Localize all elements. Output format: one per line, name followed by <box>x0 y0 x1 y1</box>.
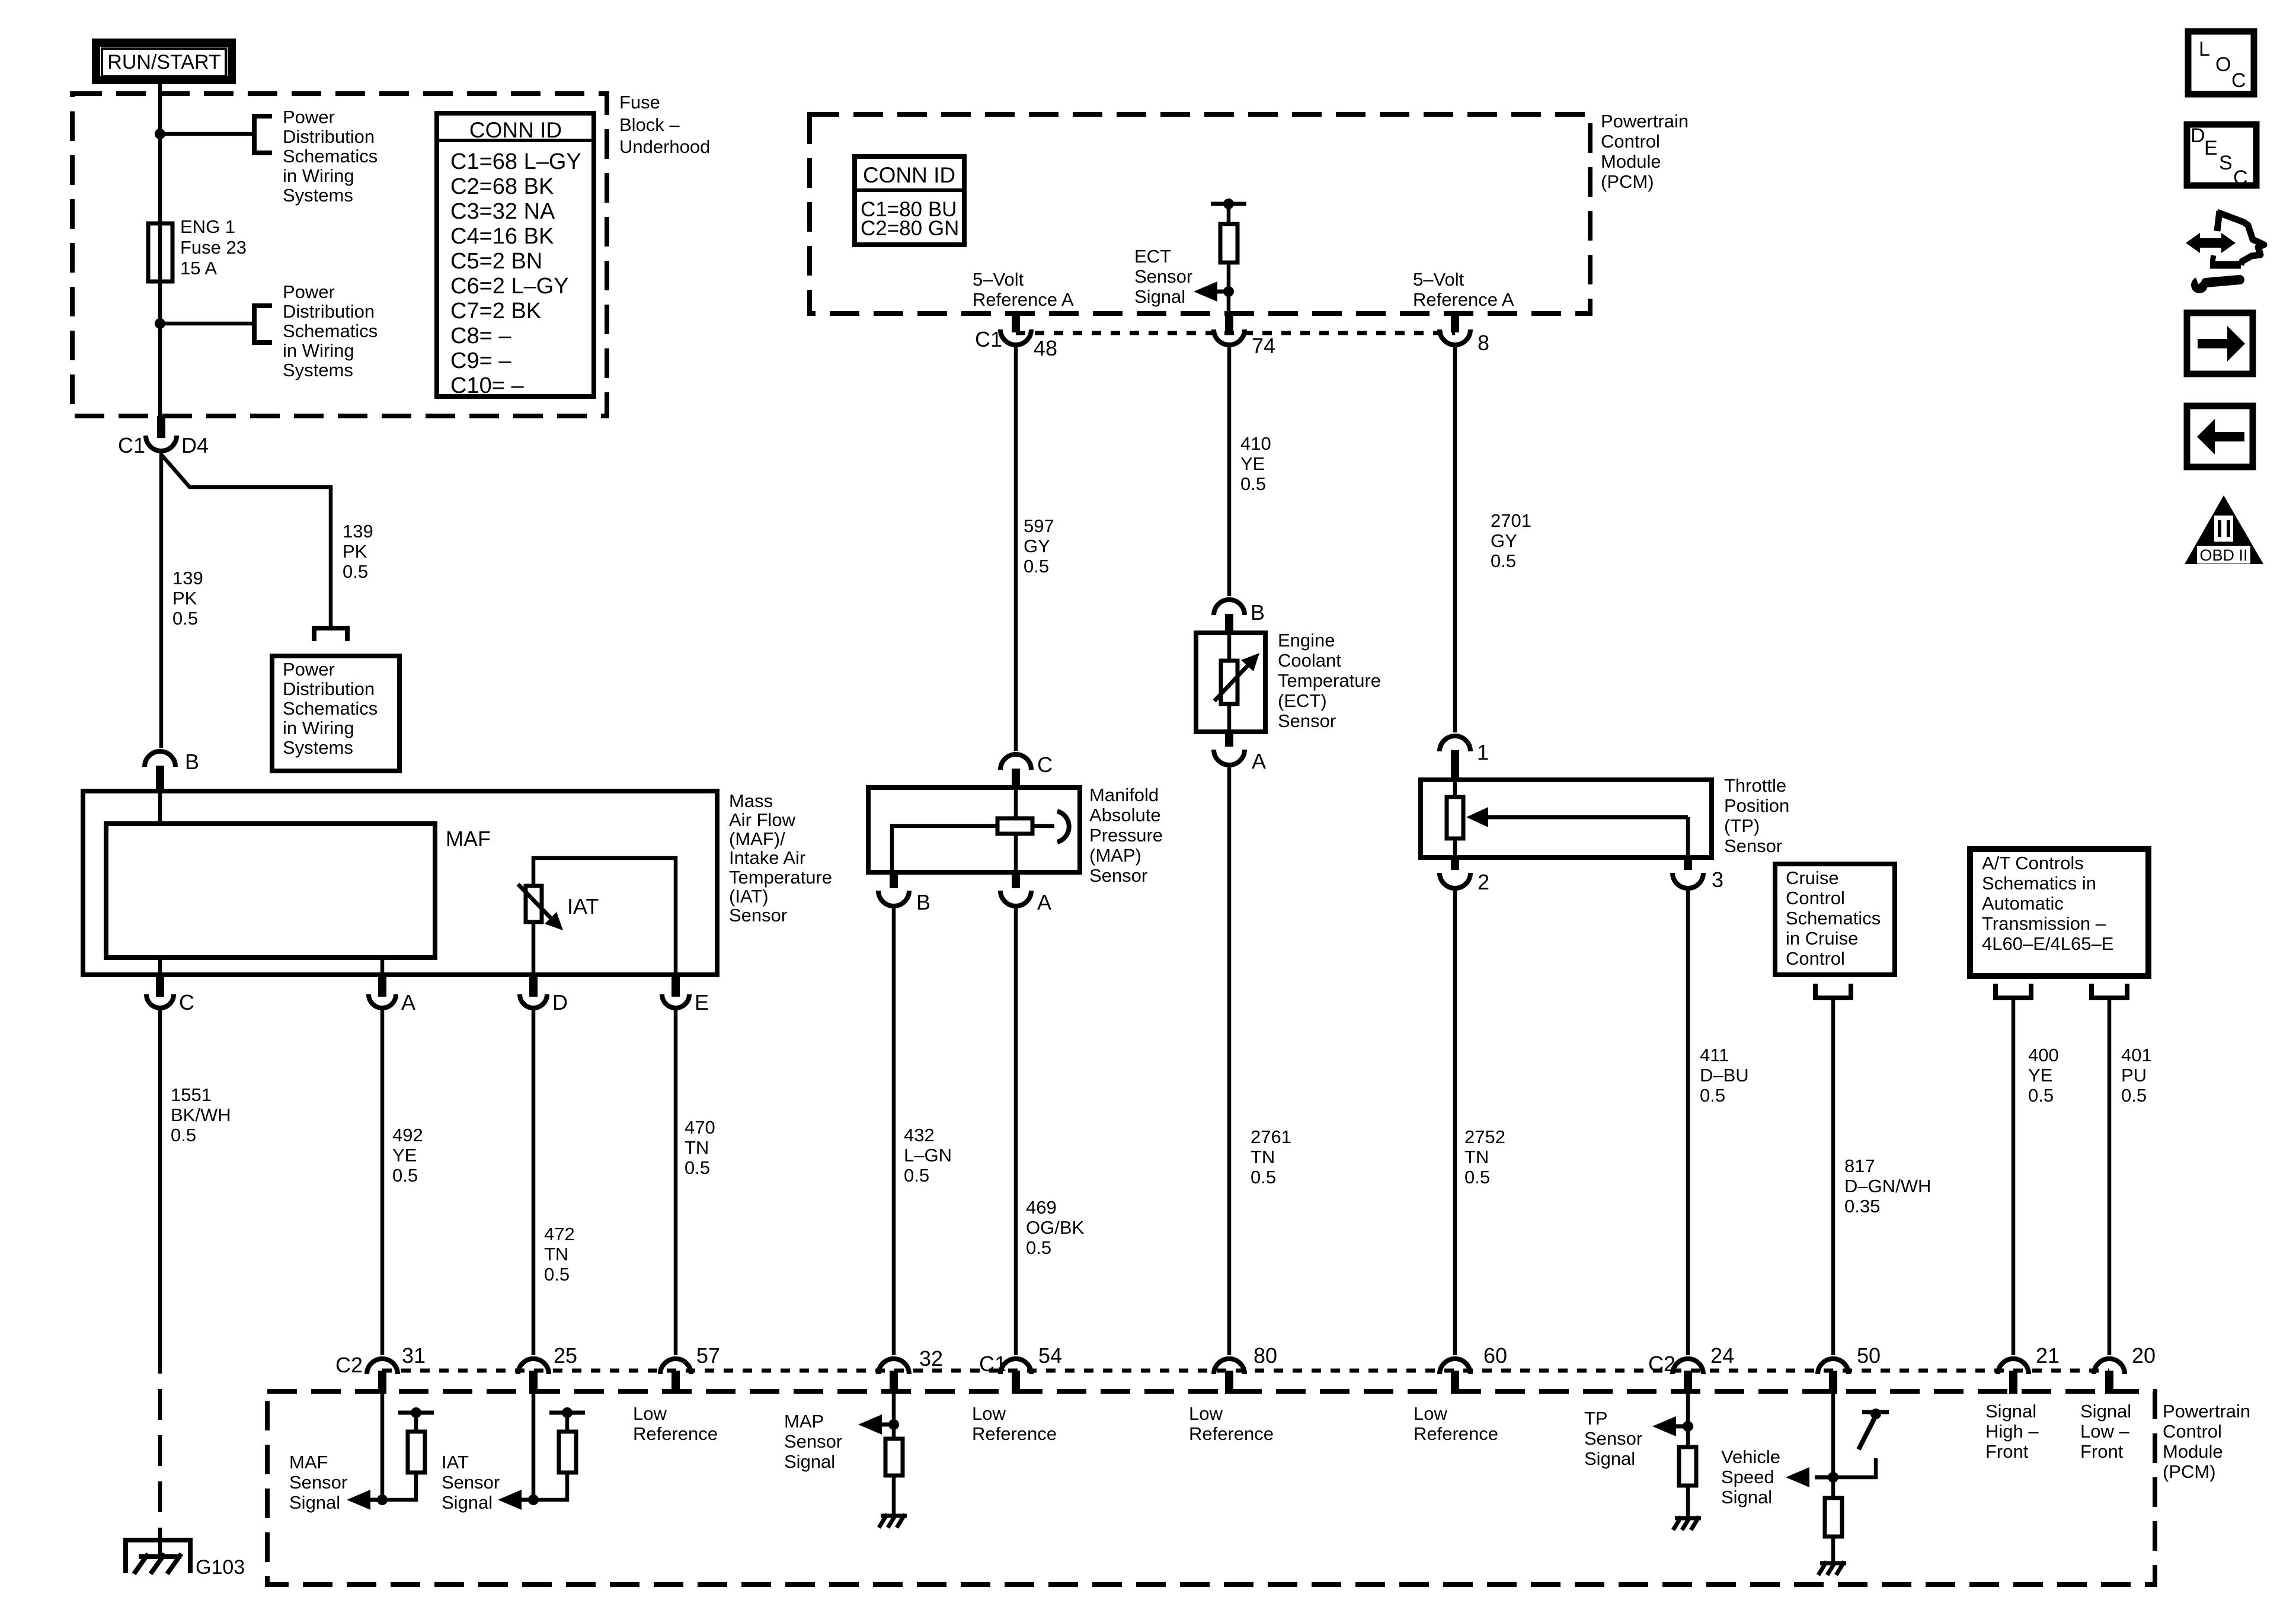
resistor TP potentiometer <box>1447 797 1463 838</box>
wire MAP internal right <box>1032 824 1054 828</box>
svg-text:A: A <box>401 990 415 1014</box>
ground G103 cradle <box>126 1540 190 1573</box>
wire 432 L-GN pin B to PCM <box>892 908 896 1355</box>
svg-text:2701: 2701 <box>1491 510 1531 531</box>
wire 817 D-GN/WH to PCM <box>1831 998 1835 1355</box>
svg-text:G103: G103 <box>196 1556 245 1579</box>
pin A terminal stub <box>378 977 386 997</box>
svg-text:C10= –: C10= – <box>450 373 524 398</box>
icon arrow left box <box>2187 406 2253 467</box>
svg-text:Sensor: Sensor <box>1134 266 1192 287</box>
label TP Sensor Signal <box>1584 1408 1642 1469</box>
MAP pin C cup <box>1000 754 1031 770</box>
svg-text:Schematics: Schematics <box>1786 908 1881 929</box>
arrow vehicle speed signal <box>1815 1475 1833 1480</box>
svg-text:Powertrain: Powertrain <box>2163 1401 2250 1422</box>
label Cruise Control Schematics in Cruise Control <box>1786 868 1881 969</box>
svg-text:MAF: MAF <box>289 1452 328 1473</box>
bracket upper power distribution reference <box>254 116 272 153</box>
connector 8 terminal stub <box>1451 312 1459 332</box>
connector 20 cup <box>2094 1359 2125 1374</box>
svg-text:Manifold: Manifold <box>1089 785 1159 805</box>
svg-text:492: 492 <box>392 1125 423 1145</box>
svg-text:0.5: 0.5 <box>1026 1237 1051 1258</box>
svg-text:Temperature: Temperature <box>729 867 832 888</box>
wire 401 PU to PCM <box>2108 998 2112 1355</box>
svg-text:TN: TN <box>1464 1147 1489 1167</box>
svg-text:Signal: Signal <box>1721 1487 1772 1507</box>
svg-text:Systems: Systems <box>283 185 353 206</box>
svg-text:32: 32 <box>919 1346 943 1371</box>
label 2761 TN 0.5 <box>1251 1126 1291 1188</box>
wire 410 YE from 74 to ECT <box>1227 347 1232 596</box>
svg-text:TN: TN <box>544 1244 568 1265</box>
wire 597 GY from 48 to MAP <box>1014 347 1018 751</box>
svg-text:(ECT): (ECT) <box>1278 690 1327 711</box>
resistor ECT pullup <box>1220 224 1237 263</box>
svg-text:C: C <box>1037 753 1053 777</box>
label Throttle Position (TP) Sensor <box>1724 775 1789 856</box>
svg-text:Reference: Reference <box>972 1423 1057 1444</box>
svg-text:Low: Low <box>1189 1403 1223 1424</box>
svg-text:Schematics: Schematics <box>283 698 378 719</box>
svg-text:80: 80 <box>1253 1343 1277 1368</box>
pin C cup <box>146 994 174 1008</box>
wire TP wiper down <box>1686 817 1690 857</box>
connector 60 cup <box>1440 1359 1470 1374</box>
svg-text:C5=2 BN: C5=2 BN <box>450 249 542 274</box>
svg-text:Signal: Signal <box>1134 286 1185 307</box>
svg-text:Temperature: Temperature <box>1278 670 1381 691</box>
svg-text:E: E <box>2204 137 2218 159</box>
svg-text:C6=2 L–GY: C6=2 L–GY <box>450 274 569 299</box>
svg-text:B: B <box>1251 600 1265 625</box>
node IAT signal junction <box>528 1494 539 1505</box>
junction node lower <box>155 318 165 329</box>
svg-text:YE: YE <box>392 1145 417 1166</box>
svg-text:Intake Air: Intake Air <box>729 847 805 868</box>
label 470 TN 0.5 <box>685 1117 715 1178</box>
svg-text:24: 24 <box>1710 1343 1734 1368</box>
svg-text:472: 472 <box>544 1224 575 1244</box>
svg-text:PK: PK <box>343 541 367 562</box>
dotted harness line bottom connector row <box>382 1369 2109 1373</box>
svg-text:15 A: 15 A <box>180 258 217 279</box>
node MAF signal junction <box>377 1494 388 1505</box>
svg-text:MAF: MAF <box>446 827 491 851</box>
node VSS switch pivot <box>1870 1409 1881 1419</box>
svg-text:Underhood: Underhood <box>619 136 710 157</box>
ground TP internal <box>1673 1516 1701 1530</box>
wire TP internal upper <box>1453 780 1457 797</box>
wire IAT bottom <box>532 922 536 978</box>
label 817 D-GN/WH 0.35 <box>1844 1156 1931 1217</box>
MAF pullup supply tick <box>398 1411 434 1415</box>
svg-text:GY: GY <box>1491 530 1517 551</box>
svg-text:D–BU: D–BU <box>1700 1065 1749 1086</box>
svg-text:139: 139 <box>172 568 203 588</box>
connector 20 terminal stub <box>2105 1371 2113 1394</box>
svg-text:Systems: Systems <box>283 360 353 380</box>
connector 32 cup <box>878 1359 909 1374</box>
label 472 TN 0.5 <box>544 1224 575 1285</box>
label ECT Sensor Signal <box>1134 246 1192 307</box>
label 5-Volt Reference A (right) <box>1413 269 1514 310</box>
dotted harness line top connector row <box>1016 331 1455 335</box>
svg-text:60: 60 <box>1483 1343 1507 1368</box>
wire 2752 TN pin 2 to PCM <box>1453 891 1457 1355</box>
svg-text:B: B <box>916 890 930 914</box>
svg-text:Module: Module <box>1601 151 1661 172</box>
label Fuse Block - Underhood <box>619 92 710 157</box>
connector 31 cup <box>367 1359 398 1374</box>
MAP pin B cup <box>878 891 909 906</box>
ECT pin A terminal stub <box>1225 732 1233 747</box>
svg-text:Powertrain: Powertrain <box>1601 111 1689 132</box>
bracket below cruise box <box>1815 984 1851 998</box>
label 469 OG/BK 0.5 <box>1026 1197 1085 1258</box>
svg-text:0.5: 0.5 <box>392 1165 418 1186</box>
svg-text:Sensor: Sensor <box>1724 836 1782 856</box>
svg-text:Reference: Reference <box>633 1423 718 1444</box>
icon OBD II triangle <box>2185 495 2263 564</box>
TP pin 3 cup <box>1673 873 1703 888</box>
svg-text:0.5: 0.5 <box>343 561 368 582</box>
svg-text:Air Flow: Air Flow <box>729 809 796 830</box>
svg-text:(IAT): (IAT) <box>729 886 769 907</box>
svg-text:A: A <box>1252 749 1266 773</box>
ECT pin B cup <box>1214 600 1245 615</box>
svg-text:817: 817 <box>1844 1156 1875 1176</box>
connector 24 terminal stub <box>1684 1371 1692 1394</box>
node VSS signal junction <box>1828 1472 1838 1483</box>
TP pin 3 terminal stub <box>1684 857 1692 870</box>
label 410 YE 0.5 <box>1240 433 1271 494</box>
svg-text:0.5: 0.5 <box>1700 1085 1725 1106</box>
TP pin 1 terminal stub <box>1451 750 1459 780</box>
svg-text:E: E <box>695 990 709 1014</box>
svg-text:A/T Controls: A/T Controls <box>1982 853 2084 873</box>
MAF inner box <box>106 824 435 958</box>
svg-text:OG/BK: OG/BK <box>1026 1217 1085 1238</box>
box A/T Controls Schematics <box>1970 849 2148 976</box>
svg-text:0.5: 0.5 <box>1024 556 1049 577</box>
wire TP internal lower <box>1453 838 1457 857</box>
svg-text:in Cruise: in Cruise <box>1786 928 1858 949</box>
box Cruise Control Schematics in Cruise Control <box>1775 864 1895 975</box>
resistor MAP load <box>885 1439 903 1475</box>
svg-text:Module: Module <box>2163 1441 2223 1462</box>
ground VSS internal <box>1818 1561 1846 1575</box>
wire pin C inside box <box>158 958 162 978</box>
svg-text:(PCM): (PCM) <box>1601 171 1654 192</box>
connector 80 terminal stub <box>1225 1371 1233 1394</box>
junction node upper <box>155 129 165 139</box>
svg-text:Control: Control <box>1601 131 1660 152</box>
TP pin 1 cup <box>1440 736 1470 751</box>
PCM top dashed box <box>810 114 1590 313</box>
TP wiper arrow <box>1487 815 1688 820</box>
svg-text:Signal: Signal <box>442 1492 493 1513</box>
wire TP signal inside PCM <box>1686 1394 1690 1447</box>
svg-text:C7=2 BK: C7=2 BK <box>450 299 541 324</box>
svg-text:Low: Low <box>972 1403 1006 1424</box>
connector 25 terminal stub <box>529 1371 538 1394</box>
svg-text:L–GN: L–GN <box>904 1145 952 1166</box>
connector 8 cup <box>1440 329 1470 345</box>
svg-text:Reference: Reference <box>1414 1423 1498 1444</box>
svg-text:Position: Position <box>1724 795 1789 816</box>
wire ECT internal lower <box>1227 704 1232 732</box>
svg-text:54: 54 <box>1038 1343 1062 1368</box>
svg-text:57: 57 <box>696 1343 720 1368</box>
svg-text:in Wiring: in Wiring <box>283 718 354 738</box>
svg-text:Fuse 23: Fuse 23 <box>180 237 247 258</box>
svg-text:Schematics: Schematics <box>283 321 378 341</box>
wire resistor down to PCM edge <box>1227 263 1231 313</box>
pin D cup <box>520 994 547 1008</box>
connector C1 D4 cup <box>146 436 177 451</box>
wire 1551 BK/WH dashed part to ground <box>158 1343 162 1555</box>
resistor IAT thermistor <box>526 886 542 922</box>
label ENG 1 Fuse 23 15 A <box>180 216 247 279</box>
label Engine Coolant Temperature (ECT) Sensor <box>1278 630 1381 731</box>
svg-text:0.5: 0.5 <box>904 1165 929 1186</box>
icon arrow right box <box>2187 313 2253 374</box>
svg-text:BK/WH: BK/WH <box>171 1105 231 1125</box>
label Powertrain Control Module (PCM) bottom <box>2163 1401 2250 1482</box>
arrow IAT sensor signal <box>515 1498 533 1502</box>
svg-text:C2: C2 <box>1648 1352 1675 1376</box>
svg-text:D4: D4 <box>181 433 209 457</box>
svg-text:432: 432 <box>904 1125 935 1145</box>
wire main run down from C1 D4 <box>159 453 164 748</box>
svg-text:Front: Front <box>1985 1441 2029 1462</box>
svg-text:Sensor: Sensor <box>784 1431 842 1452</box>
svg-text:C9= –: C9= – <box>450 348 511 373</box>
svg-text:0.5: 0.5 <box>544 1264 570 1285</box>
svg-text:(MAF)/: (MAF)/ <box>729 828 785 849</box>
svg-text:Sensor: Sensor <box>1278 710 1336 731</box>
wire VSS signal inside PCM <box>1831 1394 1835 1498</box>
wire branch to lower power distribution bracket <box>160 322 254 326</box>
label 597 GY 0.5 <box>1024 516 1054 577</box>
wire 470 TN pin E to PCM <box>674 1008 678 1355</box>
svg-text:Schematics: Schematics <box>283 146 378 167</box>
svg-text:Distribution: Distribution <box>283 678 375 699</box>
svg-text:0.5: 0.5 <box>1251 1167 1276 1188</box>
wire diagonal branch 139 PK <box>161 454 331 628</box>
svg-text:2: 2 <box>1478 870 1489 894</box>
svg-text:5–Volt: 5–Volt <box>973 269 1024 290</box>
svg-text:Sensor: Sensor <box>289 1472 347 1493</box>
connector 21 terminal stub <box>2009 1371 2017 1394</box>
svg-text:410: 410 <box>1240 433 1271 454</box>
label 492 YE 0.5 <box>392 1125 423 1186</box>
connector 74 terminal stub <box>1225 312 1233 332</box>
wire VSS load to ground <box>1831 1537 1835 1562</box>
label Low Reference (57) <box>633 1403 718 1444</box>
label Power Distribution Schematics in Wiring Systems (box) <box>283 659 378 758</box>
resistor ECT thermistor <box>1221 661 1237 704</box>
svg-text:3: 3 <box>1712 868 1723 892</box>
resistor MAF pullup <box>408 1432 425 1473</box>
wire 492 YE pin A to PCM <box>380 1008 385 1355</box>
CONN ID table fuse block <box>437 113 594 398</box>
svg-text:Reference A: Reference A <box>1413 289 1514 310</box>
wire 472 TN pin D to PCM <box>532 1008 536 1355</box>
wire MAF pullup stem <box>414 1413 418 1432</box>
label 432 L-GN 0.5 <box>904 1125 952 1186</box>
svg-text:Automatic: Automatic <box>1982 893 2064 914</box>
connector 31 terminal stub <box>378 1371 386 1394</box>
svg-text:Front: Front <box>2080 1441 2124 1462</box>
svg-text:400: 400 <box>2028 1045 2059 1065</box>
wire ECT internal upper <box>1227 633 1232 661</box>
TP pin 2 terminal stub <box>1451 857 1459 870</box>
label 411 D-BU 0.5 <box>1700 1045 1749 1106</box>
connector 60 terminal stub <box>1451 1371 1459 1394</box>
svg-text:High –: High – <box>1985 1421 2039 1442</box>
svg-text:4L60–E/4L65–E: 4L60–E/4L65–E <box>1982 933 2113 954</box>
wire 2701 GY from 8 to TP <box>1453 347 1457 732</box>
connector 74 cup <box>1214 329 1245 345</box>
connector 24 cup <box>1673 1359 1703 1374</box>
svg-text:2761: 2761 <box>1251 1126 1291 1147</box>
wire 1551 BK/WH solid part <box>158 1008 162 1343</box>
pin C terminal stub <box>156 977 164 997</box>
svg-text:0.5: 0.5 <box>171 1125 196 1145</box>
svg-text:C1: C1 <box>979 1352 1006 1376</box>
svg-text:Speed: Speed <box>1721 1467 1774 1487</box>
svg-text:Signal: Signal <box>784 1451 835 1472</box>
wire 400 YE to PCM <box>2012 998 2016 1355</box>
svg-text:Power: Power <box>283 281 335 302</box>
svg-text:C2: C2 <box>335 1353 363 1377</box>
svg-text:C2=80 GN: C2=80 GN <box>861 217 959 240</box>
connector 48 cup <box>1000 329 1031 345</box>
VSS switch top tick <box>1862 1410 1889 1414</box>
label Mass Air Flow (MAF)/ Intake Air Temperature (IAT) Sensor <box>729 790 832 926</box>
svg-text:Sensor: Sensor <box>1584 1428 1642 1449</box>
svg-text:Signal: Signal <box>2080 1401 2131 1422</box>
svg-text:YE: YE <box>1240 453 1265 474</box>
svg-text:Low –: Low – <box>2080 1421 2129 1442</box>
svg-text:Schematics in: Schematics in <box>1982 873 2096 894</box>
arrow MAF sensor signal <box>364 1498 382 1502</box>
icon LOC box <box>2188 31 2254 94</box>
TP sensor box <box>1421 780 1712 857</box>
svg-text:Fuse: Fuse <box>619 92 660 113</box>
label 401 PU 0.5 <box>2121 1045 2152 1106</box>
IAT variable arrow <box>518 884 552 920</box>
connector 57 terminal stub <box>671 1371 680 1394</box>
label 1551 BK/WH 0.5 <box>171 1084 231 1145</box>
svg-text:Transmission –: Transmission – <box>1982 913 2106 934</box>
MAP diaphragm arc <box>1057 811 1069 842</box>
svg-text:CONN ID: CONN ID <box>863 163 955 187</box>
svg-text:Power: Power <box>283 659 335 680</box>
svg-text:Control: Control <box>1786 948 1845 969</box>
wire MAP load to ground <box>892 1475 896 1515</box>
connector 21 cup <box>1998 1359 2029 1374</box>
node ECT signal junction <box>1223 286 1234 297</box>
icon diagnostic tool <box>2186 211 2264 293</box>
node on supply tick <box>1223 199 1234 209</box>
svg-text:0.5: 0.5 <box>2028 1085 2054 1106</box>
svg-text:0.35: 0.35 <box>1844 1196 1880 1217</box>
svg-text:0.5: 0.5 <box>1464 1167 1490 1188</box>
svg-text:Reference: Reference <box>1189 1423 1274 1444</box>
MAP pin A terminal stub <box>1012 872 1020 888</box>
svg-text:Low: Low <box>1414 1403 1447 1424</box>
ground G103 chassis symbol <box>134 1554 181 1574</box>
wire 411 D-BU pin 3 to PCM <box>1686 891 1690 1355</box>
bracket below A/T box left <box>1996 984 2031 998</box>
label Low Reference (80) <box>1189 1403 1274 1444</box>
node IAT pullup tick <box>562 1407 573 1418</box>
svg-text:Signal: Signal <box>1985 1401 2036 1422</box>
label Signal Low - Front <box>2080 1401 2131 1462</box>
svg-text:IAT: IAT <box>442 1452 469 1473</box>
arrow ECT sensor signal <box>1213 290 1229 294</box>
svg-text:Block –: Block – <box>619 114 680 135</box>
wire pin A inside box <box>380 958 385 978</box>
label 139 PK 0.5 (branch wire) <box>343 521 373 582</box>
svg-text:Low: Low <box>633 1403 667 1424</box>
svg-text:D: D <box>2191 124 2205 147</box>
svg-text:21: 21 <box>2036 1343 2060 1368</box>
label 5-Volt Reference A (left) <box>973 269 1074 310</box>
pin A cup <box>369 994 396 1008</box>
MAP pin A cup <box>1000 891 1031 906</box>
label 139 PK 0.5 (left wire) <box>172 568 203 629</box>
svg-text:Vehicle: Vehicle <box>1721 1446 1780 1467</box>
TP pin 2 cup <box>1440 873 1470 888</box>
icon DESC box <box>2187 124 2256 189</box>
svg-text:Absolute: Absolute <box>1089 805 1161 825</box>
resistor TP load <box>1679 1447 1696 1486</box>
wire MAF pullup to junction <box>382 1473 416 1500</box>
connector 25 cup <box>518 1359 549 1374</box>
svg-text:S: S <box>2219 152 2233 174</box>
wire MAP internal left <box>892 826 997 872</box>
svg-text:Control: Control <box>2163 1421 2222 1442</box>
svg-text:Coolant: Coolant <box>1278 650 1341 671</box>
pin D terminal stub <box>529 977 538 997</box>
fuse block underhood dashed box <box>72 94 607 416</box>
svg-text:C8= –: C8= – <box>450 324 511 348</box>
MAP pin C terminal stub <box>1012 769 1020 788</box>
wire branch to upper power distribution bracket <box>160 132 254 136</box>
svg-text:TN: TN <box>685 1137 709 1158</box>
connector 48 terminal stub <box>1012 312 1020 332</box>
svg-text:Pressure: Pressure <box>1089 825 1163 846</box>
ECT pin B terminal stub <box>1225 614 1233 633</box>
label 2752 TN 0.5 <box>1464 1126 1505 1188</box>
label Power Distribution Schematics in Wiring Systems (lower) <box>283 281 378 380</box>
wire 469 OG/BK pin A to PCM <box>1014 908 1018 1355</box>
wire from RUN/START through fuse <box>158 84 162 416</box>
connector 54 terminal stub <box>1012 1371 1020 1394</box>
connector B cup <box>145 751 175 767</box>
connector C1 D4 terminal stub <box>157 416 165 438</box>
connector 50 terminal stub <box>1829 1371 1837 1394</box>
wire MAP internal vertical lower <box>1014 834 1018 872</box>
label Vehicle Speed Signal <box>1721 1446 1780 1507</box>
ground MAP internal <box>879 1514 907 1528</box>
svg-text:C1: C1 <box>118 433 145 457</box>
